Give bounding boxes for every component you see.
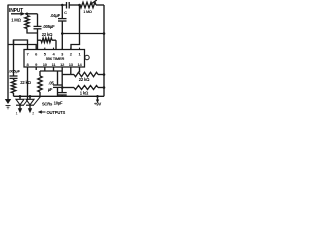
svg-text:C: C <box>64 10 67 15</box>
svg-text:556 TIMER: 556 TIMER <box>46 56 65 61</box>
svg-text:1 MΩ: 1 MΩ <box>11 18 21 23</box>
svg-text:1 kΩ: 1 kΩ <box>80 91 89 96</box>
svg-text:1 MΩ: 1 MΩ <box>83 10 92 14</box>
svg-text:.04µF: .04µF <box>50 13 60 18</box>
svg-text:.005µF: .005µF <box>9 69 21 74</box>
svg-text:10µF: 10µF <box>54 100 63 105</box>
svg-text:.005µF: .005µF <box>43 24 56 29</box>
svg-text:SCRs: SCRs <box>42 101 53 106</box>
svg-text:+9V: +9V <box>94 102 101 107</box>
svg-text:22 kΩ: 22 kΩ <box>79 77 90 82</box>
svg-text:2: 2 <box>32 112 34 116</box>
svg-text:1: 1 <box>16 112 18 116</box>
svg-text:22 kΩ: 22 kΩ <box>20 80 31 85</box>
svg-text:µF: µF <box>48 87 53 92</box>
svg-text:OUTPUTS: OUTPUTS <box>47 110 66 115</box>
